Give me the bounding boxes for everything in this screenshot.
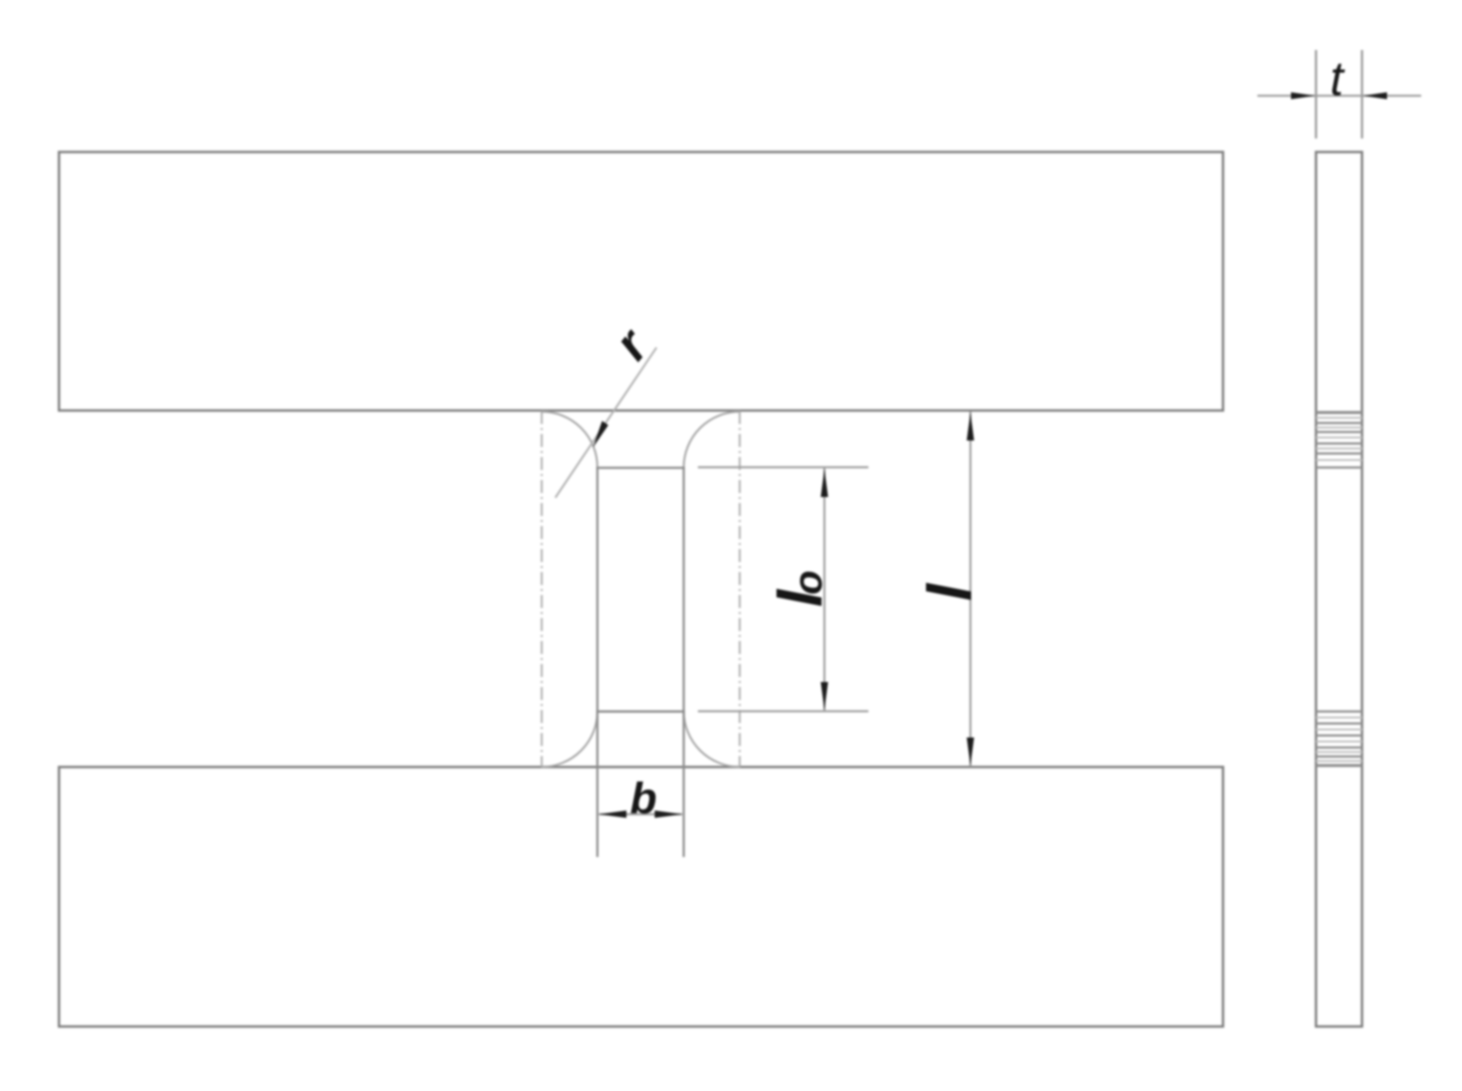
svg-text:b: b (630, 774, 657, 823)
l dimension line (967, 412, 974, 767)
l0 bottom extension line (698, 710, 869, 712)
t left extension line (1315, 50, 1317, 139)
specimen hidden left edge chain line (541, 411, 543, 767)
gauge mark top (596, 467, 684, 469)
l0 dimension line (821, 468, 828, 711)
specimen narrow right edge and b extension (683, 467, 685, 857)
fillet arc top-left (542, 412, 598, 468)
l0 top extension line (698, 466, 869, 468)
bottom grip plate (59, 767, 1223, 1027)
fillet arc top-right (684, 412, 740, 468)
top grip plate (59, 152, 1223, 411)
specimen narrow left edge and b extension (596, 467, 598, 857)
t right extension line (1361, 50, 1363, 139)
svg-text:t: t (1330, 53, 1345, 106)
svg-text:l: l (916, 582, 985, 601)
side view lower grip serration band (1316, 712, 1362, 766)
fillet arc bottom-left (542, 711, 598, 767)
r leader line (555, 348, 656, 498)
specimen hidden right edge chain line (739, 411, 741, 767)
side view upper grip serration band (1316, 413, 1362, 468)
b dimension line (598, 811, 682, 818)
side view strip outline (1316, 152, 1362, 1027)
t dimension line (1257, 92, 1421, 99)
gauge mark bottom (596, 710, 684, 712)
fillet arc bottom-right (684, 711, 740, 767)
